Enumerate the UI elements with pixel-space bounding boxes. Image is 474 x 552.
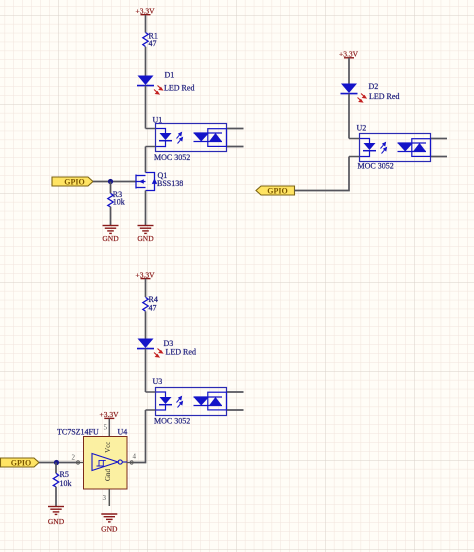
svg-text:GND: GND: [102, 234, 119, 243]
U1 internal LED: [156, 129, 166, 134]
svg-text:2: 2: [72, 454, 76, 462]
wire U1 right top: [227, 128, 244, 130]
power +3.3V P1: [141, 14, 151, 16]
D1 emission arrows: [154, 86, 163, 95]
ground GND 3: [48, 507, 64, 515]
diode D1 LED Red: [138, 76, 154, 86]
svg-text:Vcc: Vcc: [104, 442, 112, 453]
U4 pin 4: [127, 462, 134, 464]
op-amp U2 MOC 3052 optocoupler: [349, 124, 431, 171]
svg-text:47: 47: [149, 39, 157, 48]
wire P2 to D2: [348, 58, 350, 84]
diode D3 LED Red: [138, 339, 154, 349]
svg-text:3: 3: [103, 494, 107, 502]
wire U1 right bottom: [227, 146, 244, 148]
wire P4 to U4 Vcc pin 5: [108, 419, 110, 437]
svg-text:D3: D3: [164, 339, 174, 348]
svg-text:GPIO: GPIO: [267, 186, 287, 195]
wire GPIO3 to U4 pin 2: [39, 462, 76, 464]
resistor R5: [53, 473, 58, 487]
wire U3 right top: [227, 391, 244, 393]
svg-text:+3.3V: +3.3V: [100, 410, 120, 419]
power +3.3V P3: [141, 278, 151, 280]
ground GND 1: [103, 226, 119, 234]
svg-text:4: 4: [133, 453, 137, 461]
svg-text:+3.3V: +3.3V: [136, 271, 156, 280]
svg-text:47: 47: [149, 304, 157, 313]
svg-text:LED Red: LED Red: [166, 348, 196, 357]
resistor R1: [143, 33, 148, 47]
wire D1 to U1 pin1: [145, 86, 147, 129]
svg-text:U1: U1: [153, 115, 163, 124]
svg-text:MOC 3052: MOC 3052: [154, 153, 190, 162]
wire D2 to U2 pin1: [348, 94, 350, 139]
transistor Q1 BSS138: [136, 173, 155, 191]
wire U3 right bottom: [227, 409, 244, 411]
svg-text:GPIO: GPIO: [11, 458, 31, 467]
U1 pin 2 stub: [146, 146, 156, 148]
resistor R4: [143, 297, 148, 311]
port GPIO 1: [52, 177, 93, 186]
wire Q1 source to GND: [145, 191, 147, 226]
wire P3 to R4: [145, 279, 147, 297]
wire R5 to GND: [55, 487, 57, 506]
U1 internal triac: [194, 132, 223, 134]
ground GND 4 (U4): [101, 514, 117, 522]
svg-text:5: 5: [104, 423, 108, 431]
wire GPIO1 to Q1 gate: [93, 181, 136, 183]
U4 pin 2: [76, 462, 84, 464]
resistor R3: [108, 193, 113, 207]
svg-text:GND: GND: [48, 517, 65, 526]
svg-text:MOC 3052: MOC 3052: [154, 417, 190, 426]
svg-text:D1: D1: [165, 71, 175, 80]
svg-text:10k: 10k: [113, 197, 125, 206]
svg-text:MOC 3052: MOC 3052: [358, 161, 394, 170]
wire P1 to R1: [145, 15, 147, 33]
wire R1 to D1: [145, 47, 147, 76]
port GPIO 3: [1, 458, 40, 467]
D2 emission arrows: [358, 94, 367, 103]
svg-text:GPIO: GPIO: [64, 177, 84, 186]
svg-text:BSS138: BSS138: [157, 179, 183, 188]
junction B: [54, 460, 59, 465]
svg-text:Gnd: Gnd: [104, 468, 112, 481]
ground GND 2: [138, 226, 154, 234]
svg-text:LED Red: LED Red: [369, 92, 399, 101]
svg-text:10k: 10k: [60, 479, 72, 488]
wire U4 pin4 to U3 pin2: [134, 410, 146, 463]
svg-text:GND: GND: [101, 525, 118, 534]
wire junction to R3: [110, 182, 112, 194]
wire R4 to D3: [145, 311, 147, 338]
svg-text:U3: U3: [153, 377, 163, 386]
power +3.3V P4: [104, 417, 114, 419]
port GPIO 2: [256, 186, 295, 195]
svg-text:GND: GND: [137, 234, 154, 243]
diode D2 LED Red: [341, 84, 357, 94]
op-amp U4 TC7SZ14FU inverter: [57, 428, 127, 490]
wire GPIO2 to U2 pin2: [295, 157, 350, 191]
wire U2 right bottom: [431, 156, 447, 158]
svg-text:TC7SZ14FU: TC7SZ14FU: [57, 428, 99, 437]
svg-text:D2: D2: [369, 82, 379, 91]
wire R3 to GND: [110, 207, 112, 225]
svg-text:LED Red: LED Red: [164, 84, 194, 93]
svg-text:+3.3V: +3.3V: [339, 49, 359, 58]
svg-text:U4: U4: [118, 428, 128, 437]
op-amp U3 MOC 3052 optocoupler: [146, 377, 227, 425]
wire D3 to U3 pin1: [145, 349, 147, 392]
power +3.3V P2: [344, 57, 354, 59]
wire U2 right top: [431, 138, 447, 140]
svg-text:+3.3V: +3.3V: [136, 7, 156, 16]
U1 pin 1 stub: [146, 128, 156, 130]
junction A: [108, 179, 113, 184]
svg-text:U2: U2: [357, 124, 367, 133]
wire junction to R5: [55, 463, 57, 474]
op-amp U1 MOC 3052 optocoupler: [146, 115, 227, 162]
U4 pin 3: [108, 489, 110, 506]
D3 emission arrows: [154, 349, 163, 358]
svg-text:R5: R5: [60, 470, 69, 479]
wire U1 pin2 to Q1 drain: [145, 147, 147, 173]
U1 photon arrows: [177, 133, 183, 144]
